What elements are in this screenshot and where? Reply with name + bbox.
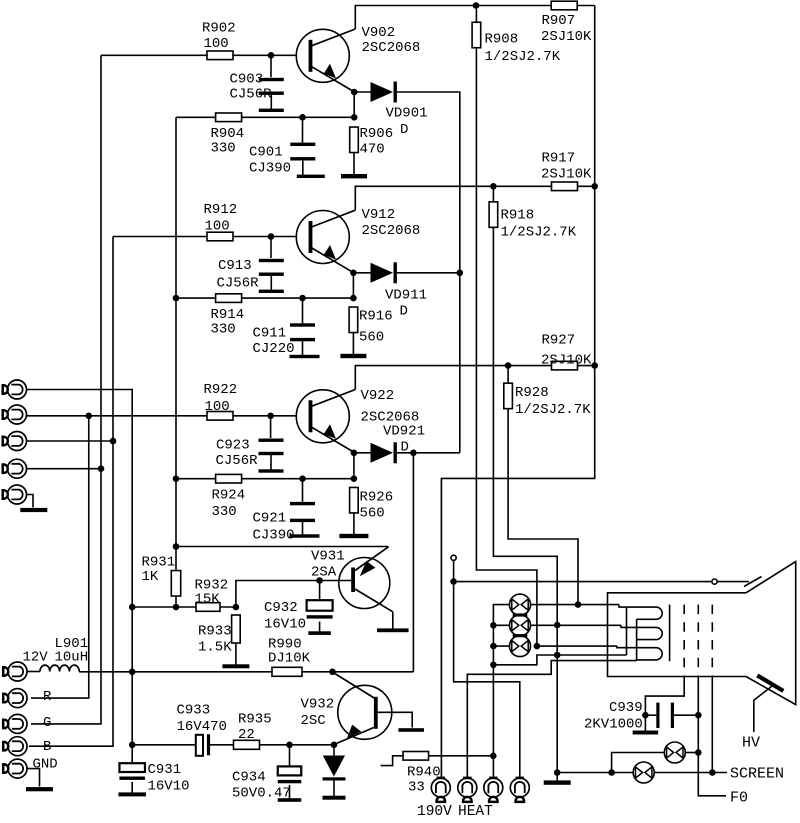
svg-text:R917: R917 (542, 151, 576, 167)
gun2 cap (637, 627, 663, 639)
ground under C932 (319, 622, 321, 634)
junction C921 top (299, 475, 306, 482)
wire R928 stub (507, 366, 509, 384)
capacitor C903 CJ56R (259, 78, 284, 81)
svg-text:330: 330 (211, 141, 236, 157)
wire gun1 jog (619, 605, 656, 608)
diode V932 emitter clamp (323, 756, 345, 777)
connector heater 3 (484, 778, 503, 797)
junction R908 top (473, 2, 480, 9)
wire stage2 input from node x113 (113, 236, 297, 238)
ground V932 base (398, 728, 424, 732)
svg-text:R933: R933 (198, 624, 232, 640)
wire V932 base to ground (378, 712, 413, 727)
junction bus heater line (490, 662, 497, 669)
svg-text:CJ56R: CJ56R (230, 87, 273, 103)
wire V912 collector to stage2 rail (355, 186, 594, 210)
svg-text:CJ390: CJ390 (253, 528, 295, 544)
capacitor C923 CJ56R (259, 439, 284, 442)
gun1 cap (637, 607, 663, 619)
junction C901 top (299, 114, 306, 121)
wire heater2 riser (467, 661, 636, 778)
wire R940 left stub (381, 756, 404, 766)
testpoint open circle (451, 555, 456, 560)
wire R904 feed x176 (175, 117, 177, 607)
wire C932 stem (319, 581, 321, 601)
svg-text:1/2SJ2.7K: 1/2SJ2.7K (515, 402, 591, 418)
junction V932 emitter node (331, 742, 338, 749)
svg-text:R912: R912 (204, 202, 238, 218)
wire R940 to x493 (429, 755, 494, 757)
svg-text:R924: R924 (212, 488, 246, 504)
svg-text:C913: C913 (218, 258, 252, 274)
grid G2 dashed (683, 605, 685, 677)
svg-text:R935: R935 (238, 712, 272, 728)
junction C939 left (642, 712, 649, 719)
grid G3 dashed (697, 605, 699, 677)
capacitor C911 CJ220 (290, 323, 315, 326)
wire gun box outline (608, 593, 747, 677)
svg-text:470: 470 (360, 142, 385, 158)
wire R924 line (176, 478, 354, 480)
junction R906 top (351, 114, 358, 121)
wire heaterA staircase (493, 655, 626, 665)
wire gun3 jog (617, 646, 656, 648)
svg-text:12V: 12V (23, 650, 49, 666)
junction conn1 line x132 R932 (129, 604, 136, 611)
svg-text:R927: R927 (542, 333, 576, 349)
svg-text:VD911: VD911 (385, 288, 427, 304)
svg-text:V912: V912 (362, 207, 396, 223)
wire gun inner vertical V1 (626, 607, 628, 655)
junction R914 left on x176 (173, 295, 180, 302)
wire C903 stem (270, 55, 272, 77)
HV anode stroke (757, 675, 783, 691)
junction screen dash node (709, 769, 716, 776)
junction conn1 line x132 12V (129, 669, 136, 676)
resistor R908 1/2SJ2.7K (472, 22, 481, 48)
svg-text:F0: F0 (730, 790, 748, 807)
svg-text:R906: R906 (360, 126, 394, 142)
svg-text:GND: GND (33, 757, 58, 773)
junction stage3 rail to right rail (591, 362, 598, 369)
wire R904 line (176, 116, 354, 118)
wire VD921 node down to R990 line (412, 453, 414, 672)
svg-text:2SJ10K: 2SJ10K (541, 167, 592, 183)
junction R916 top (350, 295, 357, 302)
bar between lamp1-2 (513, 613, 528, 616)
svg-text:VD921: VD921 (383, 424, 425, 440)
connector GND (8, 759, 27, 778)
svg-text:2KV1000: 2KV1000 (584, 717, 643, 733)
resistor R922 100 (207, 412, 233, 421)
svg-text:C923: C923 (216, 438, 250, 454)
ground under C934 (289, 785, 291, 800)
wire C913 stem (270, 237, 272, 259)
svg-text:C911: C911 (253, 326, 287, 342)
connector heater 2 (458, 778, 477, 797)
capacitor C939 2KV1000 (656, 703, 659, 728)
connector top-left 2 (8, 405, 27, 424)
svg-text:R907: R907 (542, 13, 576, 29)
spark gap lamp1 (510, 594, 531, 615)
wire gun2 jog (621, 625, 656, 627)
wire top rail to R907 (476, 5, 551, 7)
resistor R914 330 (216, 294, 242, 303)
ground GND connector (26, 787, 53, 791)
wire C901 stem (302, 117, 304, 143)
wire stage1 input from node x101 (101, 54, 207, 56)
junction x537 to lamp3 line (534, 643, 541, 650)
capacitor C921 CJ390 (290, 502, 315, 505)
wire emitter2 down to R914 line (352, 273, 354, 298)
svg-text:R902: R902 (202, 21, 236, 37)
wire R918 stub (492, 186, 494, 202)
svg-text:CJ220: CJ220 (253, 341, 295, 357)
resistor R904 330 (216, 113, 242, 122)
anode line end tick (744, 577, 762, 587)
resistor R928 1/2SJ2.7K (504, 383, 513, 409)
diode VD911 D (371, 263, 394, 283)
transistor V931 2SA (339, 558, 390, 609)
resistor R906 470 (350, 127, 359, 153)
wire lamp bus x493 (493, 605, 509, 778)
wire screen line right (655, 772, 728, 774)
wire gun inner vertical V2 (636, 619, 638, 660)
wire V902 collector to top rail (355, 6, 476, 30)
wire screen line (557, 772, 633, 774)
connector top-left 5 (8, 485, 27, 504)
svg-text:C931: C931 (148, 762, 182, 778)
svg-text:2SJ10K: 2SJ10K (541, 29, 592, 45)
wire R914 line (176, 297, 353, 299)
svg-text:R940: R940 (407, 765, 441, 781)
gun3 cap (637, 648, 663, 660)
ground under clamp diode (333, 781, 335, 798)
wire R908 stub (475, 6, 477, 23)
junction V922 emitter node (351, 450, 358, 457)
junction VD921 output node (410, 450, 417, 457)
spark gap lamp4 screen (633, 762, 654, 783)
wire 12V to L901 (27, 671, 40, 673)
grid G1 line (669, 605, 671, 662)
transistor V902 2SC2068 (296, 29, 349, 82)
resistor R940 33 (403, 752, 429, 761)
svg-text:100: 100 (204, 36, 229, 52)
resistor R935 22 (234, 740, 260, 749)
wire lamp3 left (493, 645, 509, 647)
diode VD921 D (371, 443, 394, 463)
wire V931 collector line (176, 546, 389, 548)
svg-text:560: 560 (360, 506, 385, 522)
junction R input riser (85, 413, 92, 420)
ground under R933 (235, 643, 237, 666)
svg-text:1K: 1K (142, 569, 159, 585)
svg-text:V931: V931 (311, 549, 345, 565)
connector R (8, 689, 27, 708)
wire R902 to base (233, 54, 297, 56)
junction x557 heaterA line (554, 652, 561, 659)
junction testpoint stem (450, 578, 457, 585)
svg-text:C932: C932 (264, 600, 298, 616)
wire VD911 anode (353, 272, 370, 274)
junction V902 emitter node (351, 89, 358, 96)
svg-text:2SJ10K: 2SJ10K (541, 353, 592, 369)
junction C911 top (299, 295, 306, 302)
wire VD921 cathode out (397, 452, 460, 454)
svg-text:100: 100 (205, 219, 230, 235)
junction R931 bottom (173, 604, 180, 611)
svg-text:560: 560 (359, 330, 384, 346)
svg-text:DJ10K: DJ10K (268, 651, 311, 667)
wire C933 line (132, 744, 196, 746)
wire R908 down staircase to x537 (476, 48, 537, 646)
wire C911 stem (302, 298, 304, 323)
junction C932 top (316, 577, 323, 584)
wire R928 down staircase to x578 (508, 408, 578, 604)
junction x578 gun1 line (575, 601, 582, 608)
wire R907 to right rail corner (578, 5, 595, 7)
junction V932 collector node (329, 669, 336, 676)
svg-text:16V470: 16V470 (177, 719, 227, 735)
resistor R907 2SJ10K (551, 1, 577, 10)
capacitor C931 16V10 (119, 763, 145, 772)
capacitor C933 16V470 (196, 735, 203, 756)
spark gap lamp2 (510, 615, 531, 636)
junction stage3 base node (267, 413, 274, 420)
svg-text:2SC2068: 2SC2068 (362, 223, 421, 239)
junction VD911 to x459 vertical (457, 270, 464, 277)
svg-text:1.5K: 1.5K (198, 640, 232, 656)
junction lamp5 on G3 (695, 749, 702, 756)
wire lamp5 right (686, 752, 699, 754)
resistor R918 1/2SJ2.7K (489, 202, 498, 228)
wire G4 chain to screen (711, 677, 713, 773)
ground under R926 (353, 513, 355, 536)
svg-text:G: G (43, 715, 51, 731)
svg-text:33: 33 (408, 780, 425, 796)
wire node G riser x101 (31, 55, 101, 724)
junction stage2 rail to right rail (591, 183, 598, 190)
wire R935 to emitter node (260, 744, 335, 746)
svg-text:R908: R908 (485, 32, 519, 48)
resistor R927 2SJ10K (552, 361, 578, 370)
svg-text:330: 330 (212, 504, 237, 520)
wire anode line y581.6 (454, 581, 749, 583)
wire R918 down staircase to x557 (493, 227, 557, 772)
resistor R912 100 (207, 232, 233, 241)
spark gap lamp5 focus (664, 742, 685, 763)
svg-text:C934: C934 (232, 770, 266, 786)
wire stage3 input line (27, 415, 297, 417)
resistor R932 15K (196, 603, 220, 612)
ground conn5 (20, 508, 47, 512)
junction screen ground node (554, 769, 561, 776)
svg-text:HV: HV (742, 735, 760, 752)
wire gun3 cathode line (537, 645, 617, 647)
wire node B riser x113 (29, 237, 113, 747)
bar between lamp2-3 (513, 634, 528, 637)
svg-text:190V: 190V (417, 804, 452, 820)
resistor R926 560 (350, 487, 359, 513)
wire emitter3 down to R924 line (353, 453, 355, 479)
junction conn4 x101 (98, 465, 105, 472)
svg-text:C901: C901 (249, 145, 283, 161)
capacitor C901 CJ390 (290, 143, 315, 146)
wire C923 stem (270, 416, 272, 438)
wire gun1 cathode line (531, 604, 620, 606)
resistor R902 100 (207, 51, 233, 60)
wire gun2 cathode line (531, 624, 622, 626)
resistor R916 560 (349, 307, 358, 333)
transistor V932 2SC (338, 685, 392, 739)
junction lamp4 tee (608, 769, 615, 776)
ground under C931 (131, 782, 133, 794)
svg-text:2SA: 2SA (311, 565, 337, 581)
wire heater4 line (454, 582, 520, 778)
ground under R906 (353, 153, 355, 177)
wire VD901 cathode to x459 vertical (397, 92, 460, 453)
junction V912 emitter node (350, 270, 357, 277)
resistor R924 330 (216, 474, 242, 483)
transistor V912 2SC2068 (296, 211, 349, 264)
svg-text:V902: V902 (362, 25, 396, 41)
junction R926 top (351, 475, 358, 482)
svg-text:16V10: 16V10 (264, 617, 306, 633)
svg-text:D: D (400, 122, 408, 138)
svg-text:V932: V932 (301, 697, 335, 713)
svg-text:CJ56R: CJ56R (217, 276, 260, 292)
resistor R990 DJ10K (272, 667, 302, 676)
resistor R917 2SJ10K (552, 182, 578, 191)
wire V922 collector to stage3 rail (355, 366, 594, 390)
CRT funnel (746, 562, 796, 705)
svg-text:D: D (400, 304, 408, 320)
wire GND connector to ground (28, 769, 40, 787)
svg-text:R926: R926 (360, 490, 394, 506)
junction stage2 base node (268, 233, 275, 240)
svg-text:R922: R922 (204, 382, 238, 398)
junction C934 node (286, 742, 293, 749)
junction R928 top (505, 362, 512, 369)
connector heater 4 (510, 778, 529, 797)
connector top-left 1 (8, 380, 27, 399)
grid G4 dashed (711, 605, 713, 677)
wire G3 chain to F0 (698, 677, 726, 796)
capacitor C932 16V10 (307, 600, 333, 611)
svg-text:1/2SJ2.7K: 1/2SJ2.7K (501, 225, 577, 241)
wire 12V rail to R990 line (79, 671, 413, 673)
wire C933 to R935 (210, 744, 233, 746)
wire G2 to C939 (645, 677, 684, 716)
capacitor C913 CJ56R (259, 259, 284, 262)
junction V931 line x176 (173, 543, 180, 550)
wire C934 stem (289, 745, 291, 767)
wire R932 node up to base line (236, 581, 353, 608)
svg-text:1/2SJ2.7K: 1/2SJ2.7K (485, 49, 561, 65)
junction R933 top (233, 604, 240, 611)
ground under R916 (352, 333, 354, 357)
wire VD901 anode (354, 91, 370, 93)
wire lamp2 left (493, 624, 509, 626)
svg-text:10uH: 10uH (55, 650, 89, 666)
wire testpoint stem (453, 560, 455, 578)
junction x557 lamp2 line (554, 622, 561, 629)
wire C939 right lead (674, 714, 698, 716)
connector G (8, 714, 27, 733)
junction bus lamp3 (490, 643, 497, 650)
wire node R riser x89 (31, 416, 89, 698)
junction R918 top (490, 183, 497, 190)
svg-text:C933: C933 (177, 703, 211, 719)
svg-text:100: 100 (205, 399, 230, 415)
svg-text:C939: C939 (609, 700, 643, 716)
wire conn3 to x113 (27, 440, 114, 442)
svg-text:B: B (43, 739, 51, 755)
ground under C939 left (644, 715, 646, 732)
wire R932 line (132, 606, 236, 608)
svg-text:C903: C903 (230, 72, 264, 88)
ground screen node (556, 773, 558, 783)
junction bus lamp2 (490, 622, 497, 629)
junction stage1 base node (268, 52, 275, 59)
svg-text:R916: R916 (359, 309, 393, 325)
spark gap lamp3 (510, 636, 531, 657)
resistor R931 1K (171, 571, 180, 597)
transistor V922 2SC2068 (296, 390, 349, 443)
svg-text:15K: 15K (195, 592, 221, 608)
resistor R933 1.5K (232, 615, 241, 643)
svg-text:V922: V922 (361, 388, 395, 404)
svg-text:R928: R928 (515, 385, 549, 401)
wire C921 stem (302, 479, 304, 502)
wire VD921 anode (354, 452, 371, 454)
svg-text:330: 330 (211, 322, 236, 338)
inductor L901 10uH (40, 665, 79, 671)
wire C931 stem (131, 745, 133, 763)
wire C939 left lead (645, 714, 656, 716)
svg-text:16V10: 16V10 (148, 779, 190, 795)
junction conn1 line x132 C931 node (129, 742, 136, 749)
svg-text:SCREEN: SCREEN (730, 766, 784, 783)
wire VD911 cathode to x459 (397, 272, 460, 274)
wire conn5 to ground (27, 495, 34, 508)
capacitor C934 50V0.47 (278, 766, 302, 775)
testpoint open circle right (712, 579, 717, 584)
connector 12V (8, 662, 27, 681)
svg-text:2SC: 2SC (301, 713, 326, 729)
svg-text:22: 22 (238, 727, 255, 743)
connector heater 1 (431, 778, 450, 797)
wire right rail (441, 6, 594, 779)
connector B (8, 737, 27, 756)
HV lead (754, 685, 774, 733)
svg-text:R: R (43, 689, 52, 705)
svg-text:2SC2068: 2SC2068 (362, 40, 421, 56)
junction conn3 x113 (110, 438, 117, 445)
junction C939 right on G3 line (695, 712, 702, 719)
svg-text:C921: C921 (253, 511, 287, 527)
svg-text:VD901: VD901 (386, 106, 428, 122)
wire emitter node down to R904 line (353, 92, 355, 117)
svg-text:CJ56R: CJ56R (216, 453, 259, 469)
junction R924 left on x176 (173, 475, 180, 482)
ground V931 collector (392, 612, 394, 631)
wire lamp5 branch (612, 753, 664, 773)
wire conn4 to x101 (27, 468, 102, 470)
wire conn1 to x132 riser (27, 390, 133, 745)
connector top-left 4 (8, 459, 27, 478)
